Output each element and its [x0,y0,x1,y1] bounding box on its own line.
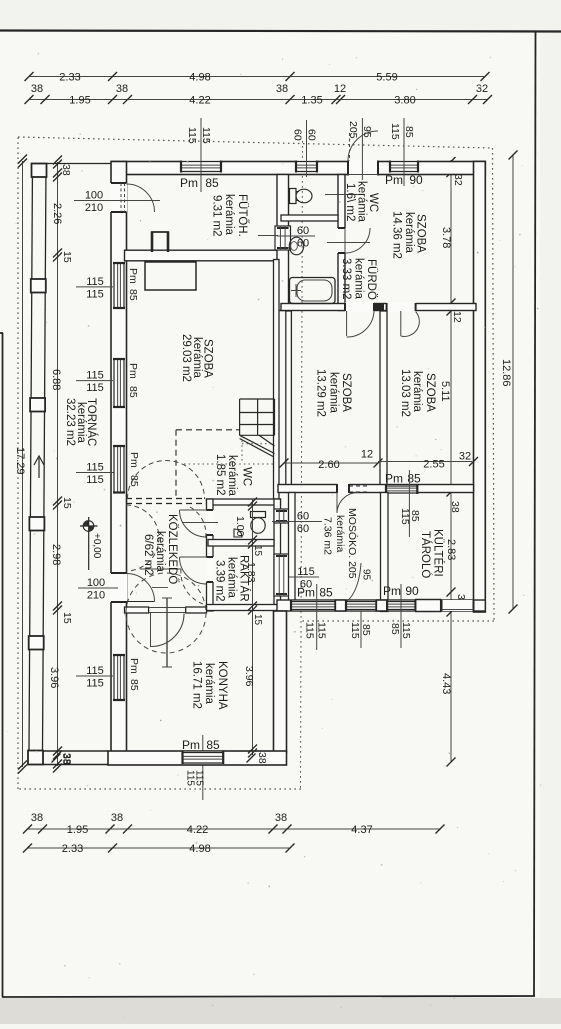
bottom dimension row 1.95 / 4.22 / 4.37 [28,828,441,830]
KONYHA south exterior wall [108,751,287,765]
svg-text:32.23 m2: 32.23 m2 [64,398,76,446]
svg-text:FÜTŐH.: FÜTŐH. [236,194,250,237]
drawing frame left border [2,333,4,997]
svg-text:17.29: 17.29 [14,447,26,475]
svg-text:15: 15 [61,497,73,509]
label 115/115 WL1 [76,286,113,288]
dim 2.55 corridor [378,461,472,463]
svg-text:14.36 m2: 14.36 m2 [391,211,403,259]
60/60 opening between FUTOH and bathroom [275,226,291,250]
window WL1 115 Pm85 (west wall) [113,263,125,308]
svg-text:60: 60 [297,523,309,535]
drawing frame bottom border [2,996,535,997]
kitchen door solid swing [151,614,184,647]
svg-text:Pm: Pm [127,268,139,284]
svg-text:115: 115 [316,622,328,639]
dim 2.60 corridor [284,462,378,464]
svg-text:115: 115 [86,288,104,300]
main entrance door swing arc [348,131,378,161]
svg-text:4.98: 4.98 [189,843,210,855]
WC(1.6)/FURDO east wall [338,175,345,311]
svg-text:6.88: 6.88 [50,369,62,390]
toilet WC1.6 [290,189,297,204]
svg-text:KÖZLEKEDŐ: KÖZLEKEDŐ [166,514,180,584]
overall 17.29 dimension line [22,161,24,767]
KULTERI TAROLO west wall [381,493,389,612]
svg-text:85: 85 [409,510,421,522]
scan speckles (decorative) [356,57,357,58]
svg-text:MOSÓKO. 205: MOSÓKO. 205 [346,508,359,579]
svg-text:2.55: 2.55 [423,459,444,471]
svg-text:6/62 m2: 6/62 m2 [142,534,154,576]
label 100/210 door2 [78,587,118,589]
wall post [335,600,346,611]
svg-text:13.03 m2: 13.03 m2 [399,369,411,417]
svg-text:12: 12 [334,83,346,95]
toilet WC1.00 [251,512,266,518]
svg-text:210: 210 [85,202,103,214]
svg-text:115: 115 [86,370,104,382]
svg-text:32: 32 [452,174,464,186]
hall door leaf and swing [127,601,155,603]
SZOBA29 east wall [274,260,280,505]
bottom dimension row 2.33 / 4.98 [28,847,291,849]
west exterior wall (porch side) [111,162,127,765]
svg-text:60: 60 [297,511,309,523]
leader line FURDO label [327,242,370,244]
svg-text:1.95: 1.95 [69,95,90,107]
dim line 115/85 north W4 [403,118,405,186]
svg-text:60: 60 [297,238,309,250]
svg-text:15: 15 [61,251,73,263]
svg-text:13.29 m2: 13.29 m2 [315,369,327,417]
svg-text:115: 115 [194,770,205,786]
washbasin FURDO [289,237,303,255]
svg-text:95: 95 [361,569,372,581]
WC door opening and arc [337,228,347,253]
svg-text:kerámia: kerámia [226,455,238,497]
svg-text:+0,00: +0,00 [91,533,102,559]
wall post [376,600,387,611]
MOSOKONYHA door to KONYHA arc [347,563,361,601]
window W1 115 Pm85 (north wall) [181,161,221,173]
svg-text:85: 85 [360,624,372,636]
KONYHA east wall [274,611,287,752]
svg-text:3.96: 3.96 [243,666,255,687]
svg-text:1.85 m2: 1.85 m2 [214,454,226,496]
kitchen window dim line 115/115 below plan [202,742,204,800]
svg-text:1.6\ m2: 1.6\ m2 [344,183,356,221]
MOSOKONYHA west wall [289,493,296,611]
svg-text:205: 205 [347,121,359,139]
svg-text:115: 115 [349,622,361,639]
left dimension chain 38/2.26/15/6.88/15/2.98/15/3.96/38 [57,162,59,766]
svg-text:Pm: Pm [383,584,401,598]
hatched window 60/60 WC1.00 east [274,509,289,523]
porch (tornac) edge lines [29,163,33,750]
svg-text:kerámia: kerámia [223,194,235,236]
svg-text:115: 115 [86,665,104,677]
svg-text:115: 115 [304,622,316,639]
KOZLEKEDO label leader [140,568,181,570]
svg-text:9.31 m2: 9.31 m2 [211,195,223,237]
label 115/115 WL2 [76,380,113,382]
SZOBA29 south dashed wall [126,498,206,500]
eaves dotted outline [18,137,493,148]
hall double-swing dashed arc [128,461,205,500]
svg-text:115: 115 [86,474,104,486]
svg-text:Pm: Pm [385,173,403,187]
wall pier kulteri south [416,600,441,612]
svg-text:kerámia: kerámia [411,371,423,413]
FUTOH door swing arc [127,184,155,212]
label 115/115 WL4 [76,675,113,677]
WC1.00 door opening+arc [206,510,215,535]
window WL4 115 Pm85 (west wall) [113,655,125,700]
svg-text:SZOBA: SZOBA [424,373,436,412]
svg-text:TÁROLÓ: TÁROLÓ [419,531,432,578]
svg-text:15: 15 [252,614,263,626]
svg-text:Pm: Pm [128,658,140,674]
svg-text:115: 115 [200,127,212,144]
door SZOBA14.36-SZOBA13.29 [345,303,374,312]
svg-text:4.43: 4.43 [440,673,452,694]
svg-text:4.22: 4.22 [187,824,208,836]
svg-text:85: 85 [319,586,333,600]
kitchen window 115 Pm85 (south wall) [183,752,224,765]
svg-text:SZOBA: SZOBA [415,214,427,253]
svg-text:85: 85 [403,126,415,138]
svg-text:3.39 m2: 3.39 m2 [214,560,226,602]
south wall of MOSOKONYHA / KULTERI TAROLO wing [277,600,485,611]
door 100/210 to hall (west wall) [110,573,127,602]
door 100/210 to FUTOH (west wall) [110,183,127,212]
svg-text:85: 85 [127,386,139,398]
svg-text:115: 115 [297,566,315,578]
svg-text:kerámia: kerámia [334,515,346,553]
svg-text:3.33 m2: 3.33 m2 [340,258,352,300]
svg-text:38: 38 [275,812,287,824]
svg-text:kerámia: kerámia [154,531,166,573]
svg-text:115: 115 [86,462,104,474]
svg-text:3.96: 3.96 [48,667,60,688]
svg-text:SZOBA: SZOBA [340,373,352,412]
svg-text:WC: WC [241,467,253,486]
svg-text:2.83: 2.83 [445,539,457,560]
svg-text:60: 60 [306,129,318,141]
svg-text:60: 60 [297,225,309,237]
svg-text:38: 38 [60,164,72,176]
kulteri storage opening [442,600,474,611]
svg-text:85: 85 [127,289,139,301]
SZOBA13.29 west wall [286,311,292,493]
svg-text:Pm: Pm [128,452,140,468]
svg-text:38: 38 [61,753,73,765]
FUTOH - SZOBA29 dividing wall [125,250,283,261]
dim line 60/60 north W2 [306,120,308,177]
svg-text:1.00: 1.00 [234,516,246,537]
svg-text:38: 38 [276,83,288,95]
svg-text:115: 115 [86,382,104,394]
svg-text:38: 38 [111,812,123,824]
window W2 60 (north wall) [296,161,317,173]
door SZOBA14.36-SZOBA13.03 [387,303,416,312]
svg-text:38: 38 [116,83,128,95]
right chain 32/3.78/12/5.11/38/2.83/32/4.43 [450,160,452,762]
svg-text:1.95: 1.95 [67,824,88,836]
svg-text:32: 32 [476,83,488,95]
leader line FUTOH label [258,235,278,237]
svg-text:FÜRDÖ: FÜRDÖ [365,259,377,300]
north exterior wall [112,162,486,175]
label 60/60 WC1.00 window [272,521,322,523]
dashed wall segment at MOSOKONYHA door [349,485,367,487]
stair walking dotted line [184,463,274,465]
svg-text:85: 85 [206,738,220,752]
door 13.29 to MOSOKONYHA [337,484,349,494]
svg-text:3.80: 3.80 [394,95,415,107]
window 115 Pm85 (wing south wall) [291,601,335,611]
svg-text:95: 95 [361,126,373,138]
leader line WC1.6 label [325,194,362,196]
svg-text:7.36 m2: 7.36 m2 [322,517,334,555]
svg-text:3.78: 3.78 [440,227,452,248]
overall right dimension 12.86 [512,155,514,609]
interior chain 1.00/15/1.83/15/3.96 [252,499,254,755]
svg-text:RAKTÁR: RAKTÁR [238,555,251,602]
corridor window Pm85 (south wall 13.29/13.03) [386,485,417,494]
corridor wall south of SZOBA14.36 (12cm) [281,304,476,311]
svg-text:85: 85 [128,679,140,691]
svg-text:38: 38 [449,501,461,513]
furniture rectangle SZOBA29 [145,262,196,290]
svg-text:2.26: 2.26 [51,203,63,224]
svg-text:38: 38 [256,752,268,764]
svg-text:Pm: Pm [180,176,198,190]
svg-text:2.33: 2.33 [62,843,83,855]
porch columns [32,164,47,178]
stair void dashed outline [176,429,240,431]
dim 85/115 wing window3 [400,584,402,648]
staircase [239,399,241,435]
svg-text:4.98: 4.98 [189,72,210,84]
svg-text:90: 90 [405,584,419,598]
kitchen door leaf [166,598,168,667]
svg-text:kerámia: kerámia [356,181,368,223]
svg-text:kerámia: kerámia [403,212,415,254]
svg-text:100: 100 [87,577,105,589]
svg-text:WC: WC [367,193,379,212]
page top edge line [0,31,561,32]
section line A (vertical dash-dot) [301,141,303,789]
KOZLEKEDO / KONYHA wall with door [125,607,149,613]
window WL3 115 Pm85 (west wall) [113,446,125,493]
porch bottom end [28,751,43,765]
svg-text:38: 38 [31,812,43,824]
hall WC(1.00) box walls [207,499,281,505]
svg-text:KONYHA: KONYHA [216,661,228,710]
dim wing window2 [360,611,362,648]
svg-text:29.03 m2: 29.03 m2 [180,334,192,382]
svg-text:15: 15 [61,612,73,624]
porch entry arrow [38,458,40,478]
svg-text:115: 115 [86,678,104,690]
FUTOH east / bathroom west wall [277,175,289,311]
chimney notch in FUTOH [151,232,154,253]
svg-text:KÜLTÉRI: KÜLTÉRI [432,529,445,577]
WC / FURDO divider wall [281,215,338,221]
svg-text:38: 38 [31,83,43,95]
window WL2 115 Pm85 (west wall) [113,359,125,407]
dim line 205/95 entrance [361,118,363,180]
svg-text:Pm: Pm [385,472,403,486]
svg-text:2.60: 2.60 [318,459,339,471]
east exterior wall [474,161,486,612]
svg-text:210: 210 [87,590,105,602]
label 115/115 WL3 [76,472,114,474]
svg-text:5.11: 5.11 [439,381,451,402]
south wall of SZOBA13.29/13.03 [278,485,474,493]
svg-text:Pm: Pm [127,363,139,379]
dim 115/115 wing window1 [316,584,318,650]
svg-text:2.98: 2.98 [50,544,62,565]
hall west dashed half swing [126,505,159,571]
porch bottom connecting wall lines [43,750,108,752]
svg-text:1.35: 1.35 [301,95,322,107]
svg-text:115: 115 [86,276,104,288]
svg-text:100: 100 [85,190,103,202]
label 100/210 door1 [74,200,160,202]
door post [376,304,384,311]
svg-text:12: 12 [361,449,373,461]
window W4 115 Pm90 (north wall) [390,161,418,173]
svg-text:115: 115 [186,127,198,144]
svg-text:kerámia: kerámia [203,663,215,705]
label 115/60 RAKTAR window [289,576,319,578]
svg-text:5.59: 5.59 [376,72,397,84]
svg-text:85: 85 [128,475,140,487]
svg-text:32: 32 [459,451,471,463]
main entrance door 95/205 opening [348,160,378,176]
hatched window 115/60 RAKTAR east [274,554,289,596]
label 60/60 bathroom opening [277,235,315,237]
svg-text:Pm: Pm [182,738,200,752]
kitchen door dashed swing circle [126,573,206,653]
svg-text:85: 85 [205,176,219,190]
small sink WC1.00 [234,529,242,537]
SZOBA13.29 / SZOBA13.03 divider [380,311,387,493]
svg-text:kerámia: kerámia [328,372,340,414]
bathtub FURDO [290,278,336,304]
svg-text:60: 60 [300,579,312,591]
level marker +0,00 [88,517,90,570]
svg-text:115: 115 [400,622,412,639]
top dimension row 1.95 / 4.22 / 1.35 / 3.80 [29,99,488,101]
svg-text:4.37: 4.37 [351,824,372,836]
top dimension row 2.33 / 4.98 / 5.59 [29,76,485,78]
window 115 Pm90 (wing south wall) [387,601,415,611]
svg-text:4.22: 4.22 [189,95,210,107]
svg-text:115: 115 [389,123,401,140]
svg-text:12: 12 [451,311,463,323]
svg-text:85: 85 [389,623,401,635]
svg-text:2.33: 2.33 [59,72,80,84]
drawing frame right border [534,31,536,996]
RAKTAR door opening+arc [206,557,215,582]
svg-text:60: 60 [292,129,304,141]
svg-text:16.71 m2: 16.71 m2 [191,661,203,709]
svg-text:15: 15 [252,545,263,557]
svg-text:kerámia: kerámia [353,258,365,300]
dim line 115/115 north W1 [200,118,202,192]
svg-text:kerámia: kerámia [226,557,238,599]
svg-text:12.86: 12.86 [500,359,512,387]
window 115 (wing south wall centre) [346,601,376,611]
svg-text:90: 90 [409,173,423,187]
leader line 1.00 label [182,522,218,524]
